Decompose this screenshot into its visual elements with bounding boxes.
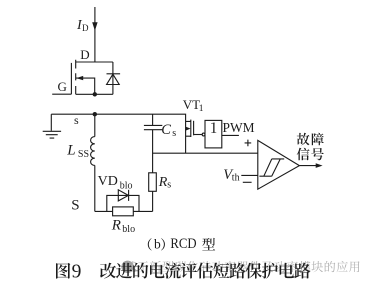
svg-text:1: 1 [199, 104, 204, 114]
svg-text:th: th [232, 173, 240, 184]
svg-text:s: s [167, 180, 171, 191]
wire: inductor to bottom rail [94, 165, 96, 211]
svg-text:VD: VD [98, 174, 118, 189]
svg-text:b: b [154, 236, 161, 251]
label fault-signal line2 信号 [297, 148, 324, 161]
VT1 arrow [185, 128, 188, 130]
watermark gray blob [121, 261, 133, 273]
MOSFET channel segments [75, 60, 77, 95]
junction: s node [93, 112, 97, 116]
VT1 drain/source stubs [186, 121, 191, 136]
current arrow I_D [93, 23, 98, 30]
blocking diode VD_blo branch [107, 195, 139, 211]
svg-text:C: C [161, 122, 171, 138]
caption paren close [161, 238, 165, 250]
wire: PWM box output [222, 134, 239, 136]
svg-text:D: D [80, 47, 89, 62]
caption (b) paren open [148, 238, 152, 250]
svg-text:L: L [66, 143, 75, 159]
wire: C_s bottom lead down to R_s and bottom rail [152, 130, 154, 212]
svg-text:R: R [111, 217, 121, 233]
minus sign [243, 181, 252, 183]
plus sign [245, 140, 252, 147]
capacitor C_s plates [144, 125, 162, 129]
svg-text:PWM: PWM [223, 120, 255, 135]
svg-text:s: s [172, 128, 176, 139]
hysteresis symbol [259, 159, 284, 176]
MOSFET VT (main power device): gate bar [70, 63, 72, 94]
watermark gray text [125, 261, 360, 272]
svg-text:S: S [71, 198, 79, 214]
svg-text:RCD: RCD [170, 236, 196, 252]
svg-text:G: G [58, 79, 67, 94]
MOSFET gate lead [52, 93, 71, 95]
VD_blo: cathode bar [128, 190, 130, 201]
VD_blo: triangle [118, 190, 128, 201]
svg-text:D: D [82, 23, 89, 33]
svg-text:blo: blo [120, 181, 133, 192]
svg-text:VT: VT [183, 97, 200, 112]
ground symbol [43, 131, 61, 138]
capacitor C_s branch: top lead [152, 114, 154, 125]
wire: drain horizontal [76, 61, 113, 63]
label 1 (logic box) [211, 123, 216, 133]
junction: source-body tie [93, 92, 97, 96]
caption 型 [202, 238, 215, 251]
svg-text:SS: SS [78, 149, 89, 160]
inductor L_SS coil [91, 137, 95, 166]
comparator triangle [258, 140, 300, 189]
VT1 gate bar [193, 121, 195, 136]
MOSFET source lead [76, 93, 113, 95]
ground stub [50, 114, 52, 131]
wire: s node down to inductor [94, 114, 96, 136]
inverter bubble [202, 133, 205, 136]
svg-text:blo: blo [122, 224, 135, 235]
caption main text [100, 263, 310, 279]
wire: comparator + input rail [153, 152, 258, 154]
wire: comparator - input [241, 174, 257, 176]
svg-text:9: 9 [72, 261, 82, 282]
PWM logic box [205, 120, 222, 147]
caption 图 [56, 263, 70, 279]
wire: bottom rail [95, 210, 153, 212]
body diode: triangle [107, 74, 120, 84]
transistor VT1: channel [190, 120, 192, 137]
wire: drain feed from top [94, 7, 96, 62]
VT1 gate lead [194, 134, 203, 136]
body diode: branch wire [112, 62, 114, 94]
MOSFET body contact with arrow [76, 78, 95, 94]
label fault-signal line1 故障 [297, 133, 324, 146]
wire: source node rail (s) to VT1 drain [51, 114, 185, 153]
wire: comparator output with arrow [299, 165, 317, 167]
body diode: cathode bar [107, 73, 121, 75]
svg-text:s: s [74, 113, 79, 127]
resistor R_blo (box) [113, 207, 134, 216]
resistor R_s (box) [149, 173, 157, 192]
